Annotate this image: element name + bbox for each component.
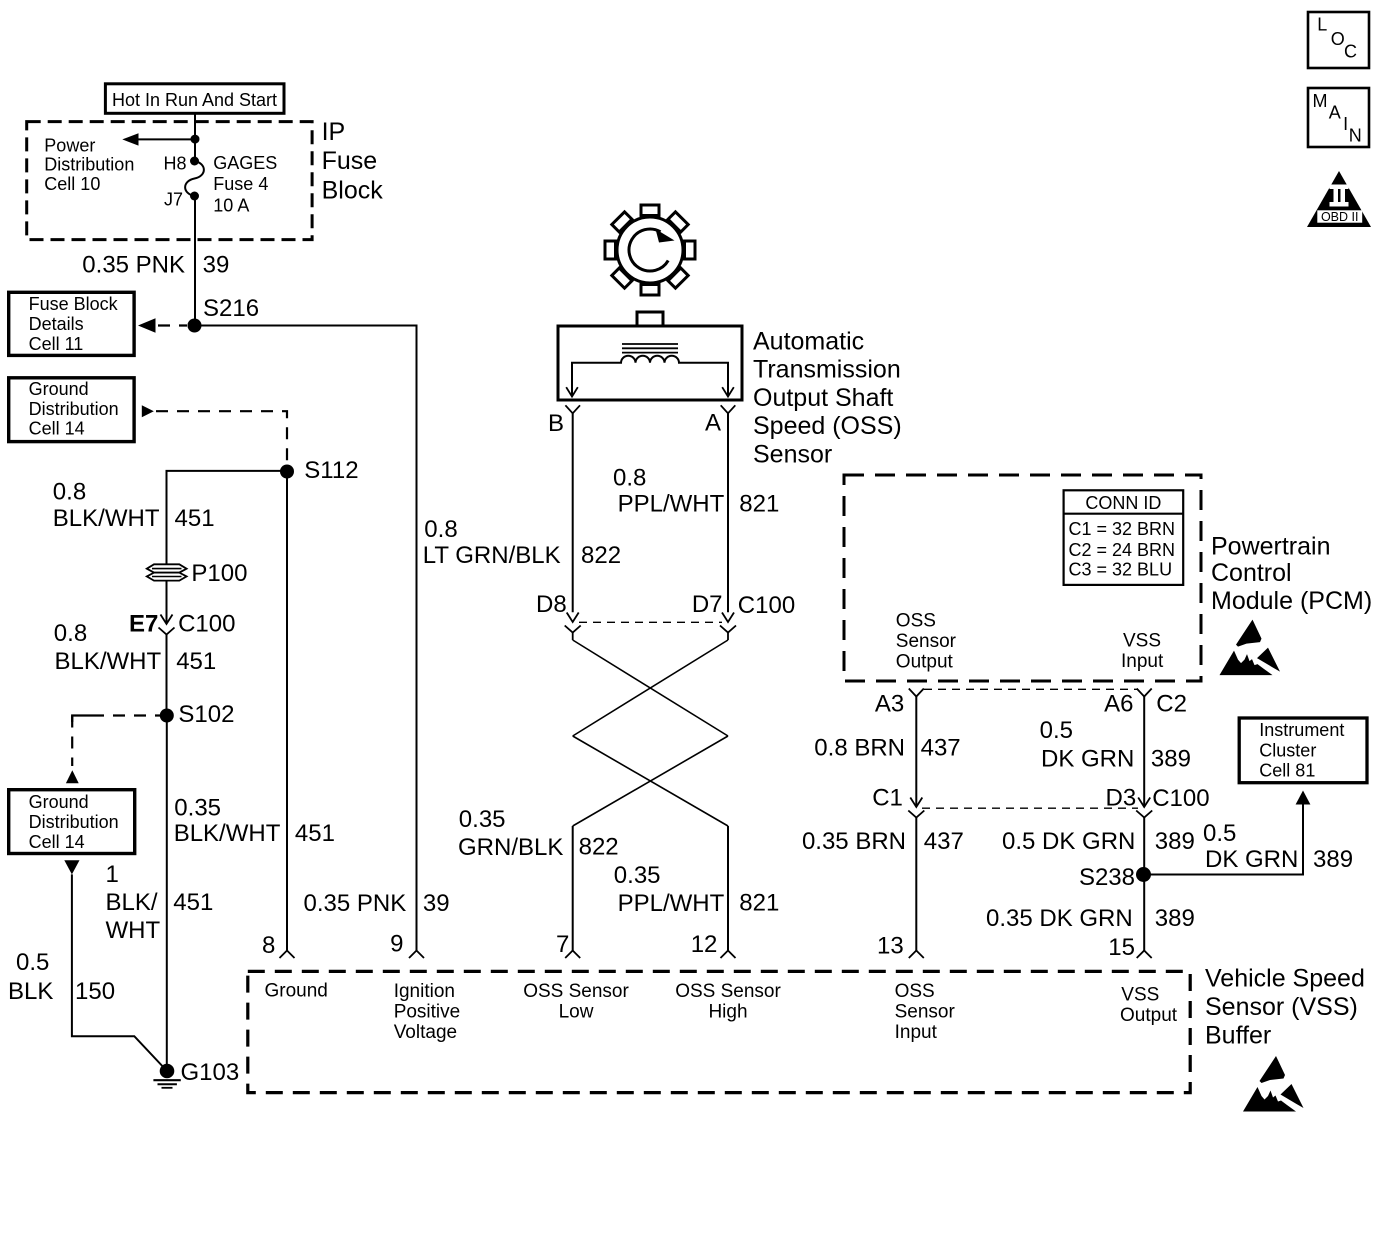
svg-text:PPL/WHT: PPL/WHT — [618, 490, 725, 517]
svg-text:Low: Low — [559, 1001, 594, 1022]
svg-text:BLK/WHT: BLK/WHT — [55, 648, 162, 675]
svg-text:DK GRN: DK GRN — [1205, 846, 1298, 873]
svg-text:H8: H8 — [163, 154, 186, 174]
svg-text:Cell 10: Cell 10 — [44, 174, 100, 194]
svg-text:PPL/WHT: PPL/WHT — [618, 890, 725, 917]
svg-text:Block: Block — [322, 176, 384, 204]
svg-text:15: 15 — [1108, 934, 1135, 961]
svg-text:39: 39 — [423, 890, 450, 917]
svg-text:Automatic: Automatic — [753, 328, 864, 356]
svg-text:821: 821 — [739, 490, 779, 517]
svg-text:437: 437 — [924, 828, 964, 855]
svg-text:I: I — [1343, 114, 1348, 134]
svg-text:Cell 14: Cell 14 — [29, 832, 85, 852]
svg-text:C2 = 24 BRN: C2 = 24 BRN — [1069, 540, 1176, 560]
svg-text:Fuse: Fuse — [322, 147, 378, 175]
svg-text:IP: IP — [322, 118, 346, 146]
svg-text:S102: S102 — [178, 701, 234, 728]
svg-text:Output: Output — [1120, 1005, 1178, 1026]
svg-text:822: 822 — [579, 834, 619, 861]
svg-text:0.35 PNK: 0.35 PNK — [82, 252, 185, 279]
svg-text:389: 389 — [1313, 846, 1353, 873]
svg-text:389: 389 — [1151, 746, 1191, 773]
svg-text:0.35 BRN: 0.35 BRN — [802, 828, 906, 855]
svg-text:A6: A6 — [1104, 691, 1133, 718]
svg-text:VSS: VSS — [1121, 985, 1159, 1006]
svg-text:821: 821 — [739, 890, 779, 917]
svg-text:451: 451 — [176, 648, 216, 675]
svg-text:150: 150 — [75, 978, 115, 1005]
svg-text:0.5: 0.5 — [1040, 717, 1073, 744]
svg-text:Sensor: Sensor — [895, 1001, 956, 1022]
svg-text:Vehicle Speed: Vehicle Speed — [1205, 965, 1365, 993]
svg-text:Cluster: Cluster — [1259, 741, 1316, 761]
svg-text:GRN/BLK: GRN/BLK — [458, 834, 563, 861]
svg-text:C: C — [1344, 41, 1357, 61]
svg-text:Distribution: Distribution — [29, 812, 119, 832]
svg-text:L: L — [1317, 15, 1327, 35]
svg-text:Ground: Ground — [29, 792, 89, 812]
svg-text:BLK/WHT: BLK/WHT — [174, 820, 281, 847]
svg-text:N: N — [1349, 126, 1362, 146]
svg-text:Voltage: Voltage — [394, 1022, 457, 1043]
svg-text:13: 13 — [877, 933, 904, 960]
svg-text:Sensor: Sensor — [896, 631, 957, 652]
svg-text:Module (PCM): Module (PCM) — [1211, 587, 1372, 615]
svg-text:12: 12 — [691, 931, 718, 958]
svg-text:Output: Output — [896, 651, 954, 672]
svg-text:437: 437 — [921, 734, 961, 761]
svg-text:GAGES: GAGES — [213, 153, 277, 173]
svg-text:OSS Sensor: OSS Sensor — [675, 981, 781, 1002]
svg-text:C100: C100 — [738, 592, 795, 619]
svg-text:0.35 DK GRN: 0.35 DK GRN — [986, 905, 1133, 932]
svg-text:S238: S238 — [1079, 864, 1135, 891]
svg-text:J7: J7 — [164, 189, 183, 209]
svg-text:OSS: OSS — [895, 981, 935, 1002]
svg-text:9: 9 — [390, 930, 403, 957]
svg-text:B: B — [548, 410, 564, 437]
svg-text:Cell 81: Cell 81 — [1259, 761, 1315, 781]
svg-text:C1: C1 — [872, 784, 903, 811]
svg-text:822: 822 — [581, 542, 621, 569]
svg-text:Fuse Block: Fuse Block — [29, 294, 119, 314]
svg-text:0.8: 0.8 — [53, 478, 86, 505]
svg-text:451: 451 — [173, 889, 213, 916]
svg-text:C100: C100 — [178, 611, 235, 638]
svg-text:Positive: Positive — [394, 1001, 461, 1022]
svg-text:389: 389 — [1155, 828, 1195, 855]
svg-text:Input: Input — [1121, 651, 1164, 672]
svg-text:0.35: 0.35 — [174, 794, 221, 821]
svg-text:Powertrain: Powertrain — [1211, 532, 1331, 560]
svg-text:G103: G103 — [181, 1059, 240, 1086]
svg-text:Distribution: Distribution — [44, 154, 134, 174]
svg-text:Transmission: Transmission — [753, 356, 901, 384]
svg-text:BLK/WHT: BLK/WHT — [53, 505, 160, 532]
svg-text:389: 389 — [1155, 905, 1195, 932]
svg-text:0.5: 0.5 — [1203, 820, 1236, 847]
svg-text:Control: Control — [1211, 559, 1292, 587]
svg-text:Sensor: Sensor — [753, 440, 832, 468]
svg-text:DK GRN: DK GRN — [1041, 746, 1134, 773]
svg-text:Speed (OSS): Speed (OSS) — [753, 412, 902, 440]
svg-text:0.8: 0.8 — [54, 620, 87, 647]
svg-text:0.5 DK GRN: 0.5 DK GRN — [1002, 828, 1135, 855]
svg-text:Details: Details — [29, 314, 84, 334]
svg-text:451: 451 — [295, 820, 335, 847]
svg-text:A: A — [705, 410, 721, 437]
svg-text:0.35: 0.35 — [614, 862, 661, 889]
svg-text:A3: A3 — [875, 691, 904, 718]
svg-text:Sensor (VSS): Sensor (VSS) — [1205, 993, 1358, 1021]
svg-text:0.5: 0.5 — [16, 949, 49, 976]
svg-text:7: 7 — [556, 931, 569, 958]
svg-text:OBD II: OBD II — [1321, 210, 1359, 224]
svg-text:C1 = 32 BRN: C1 = 32 BRN — [1069, 519, 1176, 539]
svg-text:M: M — [1313, 91, 1328, 111]
svg-text:Fuse 4: Fuse 4 — [213, 174, 268, 194]
svg-text:0.8: 0.8 — [424, 516, 457, 543]
svg-text:Cell 14: Cell 14 — [29, 419, 85, 439]
svg-text:39: 39 — [203, 252, 230, 279]
svg-text:O: O — [1331, 29, 1345, 49]
svg-text:BLK/: BLK/ — [106, 889, 158, 916]
svg-text:0.8: 0.8 — [613, 464, 646, 491]
svg-text:Power: Power — [44, 135, 95, 155]
svg-text:LT GRN/BLK: LT GRN/BLK — [423, 542, 561, 569]
svg-text:Hot In Run And Start: Hot In Run And Start — [112, 90, 277, 110]
svg-text:A: A — [1329, 103, 1341, 123]
svg-text:Output Shaft: Output Shaft — [753, 384, 893, 412]
svg-text:0.8 BRN: 0.8 BRN — [814, 734, 905, 761]
svg-text:D7: D7 — [692, 591, 723, 618]
svg-text:S112: S112 — [304, 457, 358, 484]
svg-text:CONN ID: CONN ID — [1085, 493, 1161, 513]
svg-text:Ground: Ground — [29, 379, 89, 399]
svg-text:C100: C100 — [1152, 785, 1209, 812]
svg-text:1: 1 — [106, 861, 119, 888]
svg-text:451: 451 — [175, 505, 215, 532]
svg-text:BLK: BLK — [8, 978, 53, 1005]
svg-text:D3: D3 — [1106, 784, 1137, 811]
svg-text:WHT: WHT — [106, 917, 161, 944]
svg-text:Input: Input — [895, 1022, 938, 1043]
svg-text:Ground: Ground — [265, 981, 328, 1002]
svg-text:D8: D8 — [536, 591, 567, 618]
svg-text:Cell 11: Cell 11 — [29, 334, 84, 354]
svg-text:0.35 PNK: 0.35 PNK — [304, 890, 407, 917]
svg-text:C2: C2 — [1156, 691, 1187, 718]
svg-text:8: 8 — [262, 932, 275, 959]
svg-text:VSS: VSS — [1123, 631, 1161, 652]
svg-text:Distribution: Distribution — [29, 399, 119, 419]
svg-text:0.35: 0.35 — [459, 806, 506, 833]
svg-text:Buffer: Buffer — [1205, 1021, 1271, 1049]
svg-text:C3 = 32 BLU: C3 = 32 BLU — [1069, 560, 1173, 580]
svg-text:High: High — [708, 1001, 747, 1022]
svg-text:Instrument: Instrument — [1259, 720, 1344, 740]
svg-text:OSS: OSS — [896, 611, 936, 632]
svg-text:E7: E7 — [129, 611, 158, 638]
svg-text:OSS Sensor: OSS Sensor — [523, 981, 629, 1002]
svg-text:10 A: 10 A — [213, 195, 249, 215]
svg-text:S216: S216 — [203, 295, 259, 322]
svg-text:P100: P100 — [191, 560, 247, 587]
svg-text:Ignition: Ignition — [394, 981, 455, 1002]
